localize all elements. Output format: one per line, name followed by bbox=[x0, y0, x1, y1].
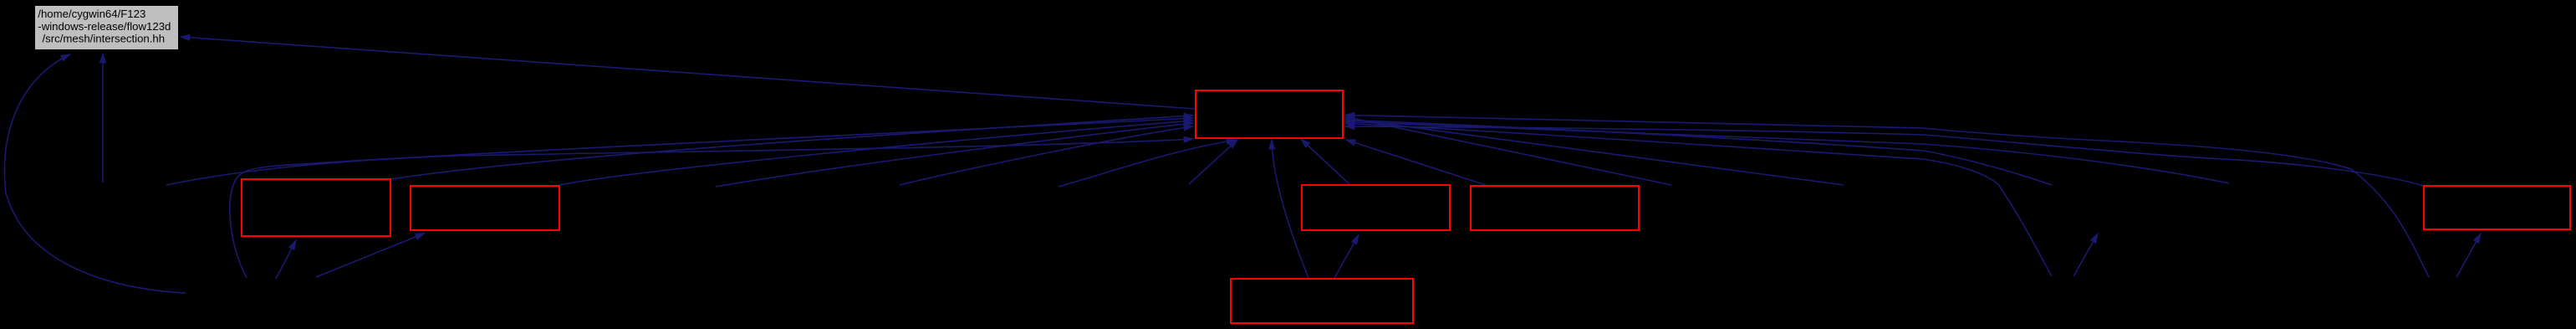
node C bbox=[1302, 185, 1450, 230]
wire R4 to central box bbox=[1345, 122, 2229, 184]
wire L to gray root node (left arc) bbox=[4, 54, 186, 293]
wire M2 to central box bbox=[716, 123, 1193, 187]
wire VR to central box bbox=[1345, 124, 2052, 277]
wire R1 to central box bbox=[1345, 117, 1671, 186]
wire L to B bbox=[316, 234, 425, 278]
wire R3 to central box bbox=[1345, 121, 2052, 186]
wire M5 to central box bottom bbox=[1189, 140, 1237, 184]
node root gray box /home/cygwin64/F123-windows-release/flow123d/src/mesh/intersection.hh bbox=[35, 6, 178, 49]
svg-text:/src/mesh/intersection.hh: /src/mesh/intersection.hh bbox=[43, 32, 166, 44]
wire R2 to central box bbox=[1345, 119, 1844, 186]
wire B to central box bbox=[560, 121, 1193, 185]
wire M4 to central box bottom bbox=[1058, 140, 1236, 187]
wire M3 to central box bbox=[900, 126, 1193, 185]
wire VF to F bbox=[2456, 234, 2481, 277]
node B bbox=[411, 186, 559, 230]
wire L to central box bbox=[230, 118, 1193, 278]
wire A to central box bbox=[390, 116, 1193, 179]
wire CB to gray root node bbox=[181, 37, 1195, 109]
wire E to C bbox=[1334, 235, 1359, 279]
wire VR to R3 (floating arrow) bbox=[2074, 234, 2098, 276]
node A bbox=[242, 179, 390, 236]
wire M1 to central box corner bbox=[166, 139, 1193, 185]
wire C to central box bottom bbox=[1301, 139, 1349, 184]
svg-text:-windows-release/flow123d: -windows-release/flow123d bbox=[38, 20, 171, 33]
wire VF to central box bbox=[1345, 116, 2429, 278]
node E bbox=[1231, 279, 1413, 323]
svg-text:/home/cygwin64/F123: /home/cygwin64/F123 bbox=[38, 8, 145, 20]
wire M1 to gray root node bbox=[102, 54, 104, 182]
wire L to A bbox=[276, 240, 296, 279]
node D bbox=[1471, 186, 1639, 230]
node CB central box bbox=[1196, 90, 1343, 138]
wire F to central box bbox=[1345, 126, 2423, 186]
wire D to central box corner bbox=[1346, 140, 1486, 185]
wire E to central box bottom bbox=[1272, 140, 1308, 278]
node F bbox=[2424, 186, 2570, 229]
